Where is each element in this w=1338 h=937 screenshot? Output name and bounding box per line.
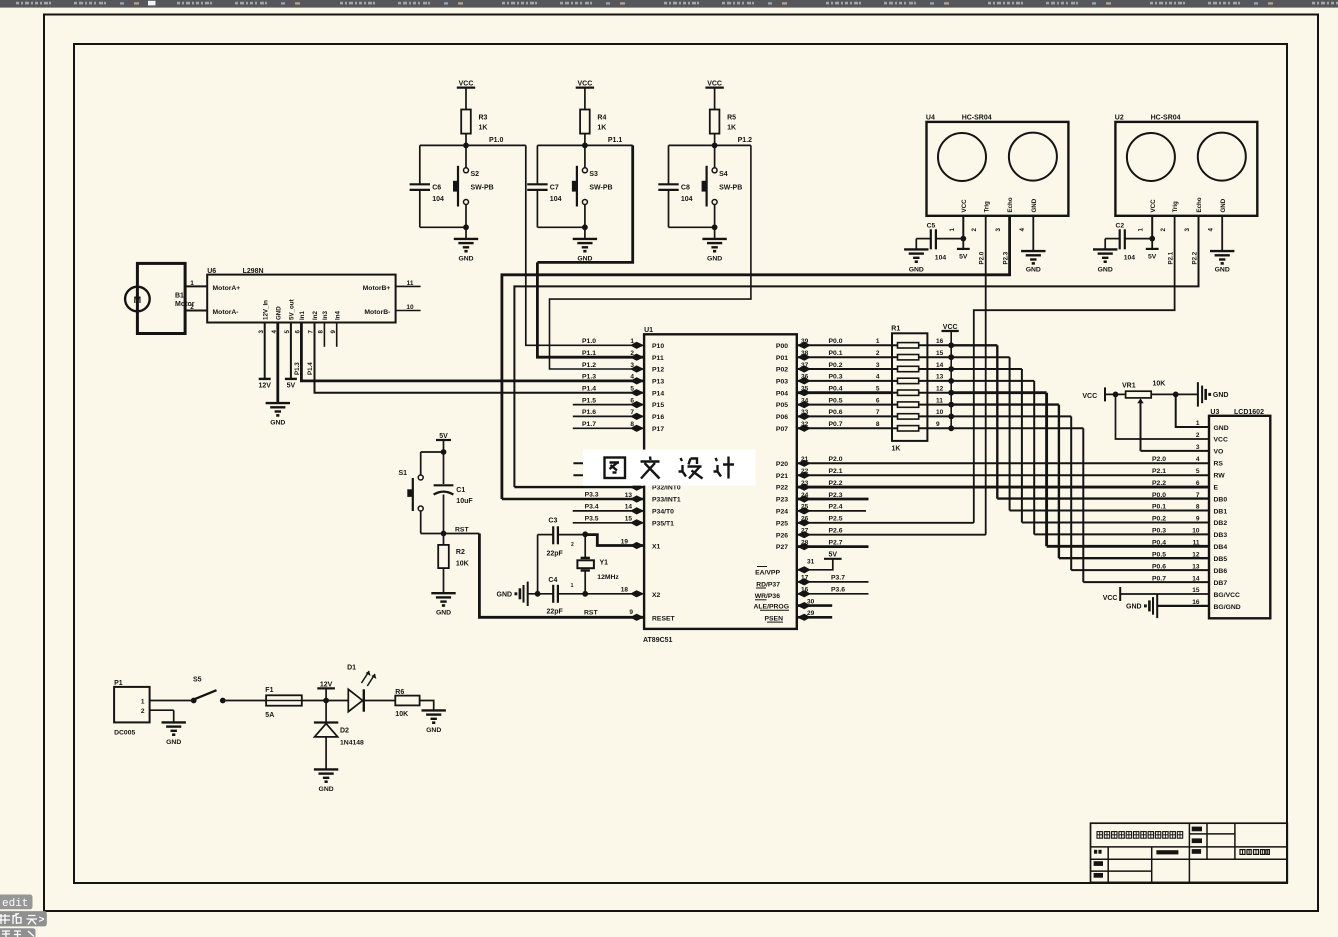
title block redaction marks [1094, 827, 1202, 878]
svg-text:1: 1 [630, 338, 634, 345]
R1 pin 3 / pin 14 wires [876, 362, 954, 372]
svg-text:7: 7 [1196, 492, 1200, 499]
svg-text:In3: In3 [322, 311, 329, 320]
capacitor C3 22pF [538, 518, 586, 558]
svg-text:P1.6: P1.6 [582, 409, 596, 416]
wire P0.0 staircase to LCD DB0 [951, 345, 1209, 498]
wire In4 stub [336, 323, 338, 347]
U4 pin numbers [949, 227, 1026, 231]
wire P1.2 to U1 pin 3 [550, 145, 751, 369]
svg-text:6: 6 [630, 397, 634, 404]
svg-text:GND: GND [1026, 266, 1041, 273]
U1 pin 21 (P20) wire [797, 456, 1209, 467]
svg-text:27: 27 [801, 528, 809, 535]
svg-text:4: 4 [1208, 228, 1215, 232]
svg-text:P0.0: P0.0 [1152, 492, 1166, 499]
svg-text:DB5: DB5 [1214, 556, 1228, 563]
svg-text:29: 29 [807, 610, 815, 617]
power port VCC (R1 rail) [942, 324, 959, 429]
svg-text:U3: U3 [1210, 409, 1219, 416]
svg-text:DB4: DB4 [1214, 544, 1228, 551]
svg-text:P03: P03 [776, 379, 788, 386]
U1 pin 28 (P27) wire [797, 539, 869, 550]
svg-text:2: 2 [190, 304, 194, 311]
svg-text:21: 21 [801, 456, 809, 463]
svg-text:9: 9 [629, 609, 633, 616]
svg-text:R3: R3 [479, 115, 488, 122]
svg-text:P14: P14 [652, 390, 664, 397]
svg-text:DB2: DB2 [1214, 520, 1228, 527]
svg-text:P1.0: P1.0 [582, 338, 596, 345]
wire VCC to R4 [584, 88, 586, 110]
U1 pin 30 ALE/PROG stub [797, 598, 832, 609]
svg-text:GND: GND [1215, 266, 1230, 273]
title block drawing name text [1097, 832, 1183, 839]
svg-text:D1: D1 [347, 665, 356, 672]
svg-text:DB7: DB7 [1214, 580, 1228, 587]
svg-text:VCC: VCC [1214, 437, 1228, 444]
svg-text:C8: C8 [681, 184, 690, 191]
ground (R6) [420, 701, 446, 734]
svg-text:7: 7 [630, 409, 634, 416]
capacitor C2 104 bypass [1105, 216, 1155, 261]
wire U4 Trig down to P2.6 row [985, 216, 987, 535]
U1 pin 1 (P10) wire [582, 338, 644, 349]
svg-text:2: 2 [630, 350, 634, 357]
svg-text:GND: GND [166, 739, 181, 746]
push-button switch S1 [398, 452, 423, 534]
svg-text:31: 31 [807, 559, 815, 566]
net label P2.1 (U2 Trig) [1167, 251, 1174, 264]
wire C7 to ground node [537, 224, 587, 230]
svg-text:R2: R2 [456, 549, 465, 556]
R1 pin 7 / pin 10 wires [876, 409, 954, 419]
wire R5 to node P1.2 [714, 134, 716, 146]
svg-text:RS: RS [1214, 461, 1224, 468]
svg-text:14: 14 [625, 504, 633, 511]
svg-text:MotorA+: MotorA+ [213, 285, 241, 292]
U1 pin 5 (P14) wire [582, 386, 644, 397]
U1 pin 35 (P04) wire to R1 [797, 386, 892, 397]
svg-text:LCD1602: LCD1602 [1234, 409, 1264, 416]
wire R4 to node P1.1 [584, 134, 586, 146]
svg-text:P0.2: P0.2 [1152, 516, 1166, 523]
wire In2 to U1 P1.4 [307, 323, 644, 393]
svg-text:U4: U4 [926, 115, 935, 122]
svg-text:P2.6: P2.6 [829, 528, 843, 535]
R1 pin 2 / pin 15 wires [876, 350, 954, 360]
svg-text:Echo: Echo [1007, 197, 1014, 212]
svg-text:P2.3: P2.3 [829, 492, 843, 499]
svg-text:P2.1: P2.1 [1167, 251, 1174, 264]
svg-text:P1.2: P1.2 [582, 362, 596, 369]
svg-text:P2.0: P2.0 [829, 456, 843, 463]
push-button switch S3 SW-PB [572, 145, 613, 227]
svg-text:SW-PB: SW-PB [589, 184, 612, 191]
svg-text:P06: P06 [776, 414, 788, 421]
U1 pin 13 (P3.3/INT1) wire from U4 echo [502, 492, 644, 503]
svg-text:RW: RW [1214, 473, 1226, 480]
power port VCC (P1.1 pull-up) [576, 81, 594, 88]
power port 5V (U6 pin5) [285, 323, 297, 390]
ground (C5) [904, 249, 928, 273]
push-button switch S4 SW-PB [702, 145, 743, 227]
U1 pin 24 (P23) wire [797, 492, 869, 503]
svg-text:104: 104 [681, 196, 693, 203]
node X1 junction [582, 531, 588, 557]
svg-text:P01: P01 [776, 355, 788, 362]
wire R3 to node P1.0 [465, 134, 467, 146]
svg-text:13: 13 [936, 374, 944, 381]
svg-text:Y1: Y1 [600, 559, 609, 566]
svg-text:VO: VO [1214, 449, 1224, 456]
svg-text:P3.7: P3.7 [831, 575, 845, 582]
net label P2.2 (U2 Echo) [1191, 251, 1198, 264]
R1 pin 6 / pin 11 wires [876, 397, 954, 407]
U1 pin 25 (P24) wire [797, 504, 866, 515]
svg-text:U6: U6 [207, 268, 216, 275]
svg-text:P07: P07 [776, 426, 788, 433]
svg-text:S4: S4 [719, 171, 728, 178]
U1 pin 33 (P06) wire to R1 [797, 409, 892, 420]
U1 pin 34 (P05) wire to R1 [797, 397, 892, 408]
net label P2.3 (U4 Echo) [1002, 251, 1009, 264]
svg-text:4: 4 [876, 374, 880, 381]
power port VCC (P1.0 pull-up) [457, 81, 475, 88]
svg-text:P1.5: P1.5 [582, 397, 596, 404]
U1 pin 22 (P21) wire [797, 468, 1209, 479]
svg-text:1: 1 [190, 280, 194, 287]
node P1.0 junction [420, 137, 526, 148]
power port VCC (P1.2 pull-up) [705, 81, 723, 88]
svg-text:P0.3: P0.3 [1152, 528, 1166, 535]
svg-text:P13: P13 [652, 379, 664, 386]
svg-text:GND: GND [426, 727, 441, 734]
wire P1.1 to U1 pin 2 [537, 145, 644, 357]
svg-text:2: 2 [876, 350, 880, 357]
resistor R4 1K [580, 110, 606, 134]
U1 pin 3 (P12) wire [582, 362, 644, 373]
U1 pin 2 (P11) wire [582, 350, 644, 361]
svg-text:P34/T0: P34/T0 [652, 509, 674, 516]
svg-text:1K: 1K [892, 446, 901, 453]
svg-text:RST: RST [455, 527, 469, 534]
U1 pin 39 (P00) wire to R1 [797, 338, 892, 349]
svg-text:P0.1: P0.1 [1152, 504, 1166, 511]
U1 pin 15 (P3.5) stub [573, 515, 644, 526]
ground (R2) [431, 568, 455, 617]
svg-text:C1: C1 [456, 487, 465, 494]
svg-text:MotorB-: MotorB- [364, 309, 390, 316]
svg-text:P35/T1: P35/T1 [652, 520, 674, 527]
svg-text:10: 10 [936, 409, 944, 416]
svg-text:19: 19 [621, 538, 629, 545]
capacitor C7 104 [527, 145, 561, 227]
resistor R6 10K [395, 689, 419, 718]
svg-text:C6: C6 [432, 184, 441, 191]
resistor R5 1K [710, 110, 736, 134]
svg-text:S3: S3 [589, 171, 598, 178]
svg-text:3: 3 [1196, 444, 1200, 451]
svg-text:C3: C3 [548, 518, 557, 525]
svg-text:22pF: 22pF [547, 609, 564, 616]
svg-text:DB0: DB0 [1214, 496, 1228, 503]
U1 pin 37 (P02) wire to R1 [797, 362, 892, 373]
svg-text:P0.2: P0.2 [829, 362, 843, 369]
svg-text:P1.4: P1.4 [582, 386, 596, 393]
svg-text:S5: S5 [193, 677, 202, 684]
U1 pin 16 (P3.6) stub [797, 587, 869, 598]
svg-text:P24: P24 [776, 509, 788, 516]
wire VR1 wiper to LCD VO [1141, 450, 1210, 452]
svg-text:104: 104 [432, 196, 444, 203]
svg-text:DB1: DB1 [1214, 508, 1228, 515]
svg-text:In1: In1 [299, 311, 306, 320]
svg-text:9: 9 [330, 330, 337, 334]
svg-text:DC005: DC005 [114, 730, 135, 737]
wire In1 to U1 P1.3 [294, 323, 644, 381]
U1 right pin names EA/VPP RD WR ALE PSEN [754, 567, 790, 623]
wire U4 Echo to U1 INT1 [502, 216, 1010, 499]
svg-text:3: 3 [995, 228, 1002, 232]
power port 5V (EA/VPP) [797, 552, 842, 570]
svg-text:33: 33 [801, 409, 809, 416]
power port 12V (U6 pin3) [258, 323, 271, 390]
svg-text:5: 5 [1196, 468, 1200, 475]
svg-text:HC-SR04: HC-SR04 [1151, 115, 1181, 122]
svg-text:AT89C51: AT89C51 [643, 637, 673, 644]
svg-text:P0.4: P0.4 [829, 386, 843, 393]
ground (LCD backlight, bar style) [1126, 594, 1209, 618]
ultrasonic module U4 HC-SR04 [926, 115, 1069, 216]
svg-text:P1.1: P1.1 [608, 137, 623, 144]
svg-text:4: 4 [1019, 227, 1026, 231]
svg-text:7: 7 [876, 409, 880, 416]
U1 pin 36 (P03) wire to R1 [797, 374, 892, 385]
svg-text:RST: RST [584, 609, 598, 616]
svg-text:P0.5: P0.5 [1152, 551, 1166, 558]
svg-text:R4: R4 [597, 115, 606, 122]
svg-text:D2: D2 [340, 728, 349, 735]
svg-text:Echo: Echo [1196, 197, 1203, 212]
ultrasonic module U2 HC-SR04 [1115, 115, 1258, 216]
svg-text:P2.7: P2.7 [829, 539, 843, 546]
svg-text:104: 104 [550, 196, 562, 203]
U1 pin 7 (P16) wire [573, 409, 644, 420]
svg-text:P2.0: P2.0 [1152, 456, 1166, 463]
wire P0.4 staircase to LCD DB4 [951, 393, 1209, 547]
svg-text:Trig: Trig [1172, 201, 1179, 213]
svg-text:MotorB+: MotorB+ [363, 285, 391, 292]
svg-text:P20: P20 [776, 461, 788, 468]
ground (crystal, bar style) [497, 582, 528, 606]
U1 left pin names P10-P17 [652, 343, 664, 433]
wire X1 node to U1 pin 19 [585, 535, 644, 550]
capacitor C4 22pF [528, 535, 586, 616]
svg-text:5V_out: 5V_out [289, 299, 296, 320]
svg-text:1K: 1K [727, 125, 736, 132]
resistor R2 10K [438, 534, 469, 569]
svg-text:C7: C7 [550, 184, 559, 191]
node P1.2 junction [669, 137, 753, 148]
svg-text:35: 35 [801, 386, 809, 393]
U1 pin 38 (P01) wire to R1 [797, 350, 892, 361]
svg-text:1: 1 [949, 228, 956, 232]
capacitor C6 104 [410, 145, 444, 227]
svg-text:P3.3: P3.3 [585, 492, 599, 499]
wire VCC to R3 [465, 88, 467, 110]
svg-text:104: 104 [935, 254, 947, 261]
svg-text:DB3: DB3 [1214, 532, 1228, 539]
svg-text:HC-SR04: HC-SR04 [962, 115, 992, 122]
svg-text:3: 3 [1184, 228, 1191, 232]
svg-text:PSEN: PSEN [764, 615, 783, 622]
svg-text:X2: X2 [652, 592, 661, 599]
svg-text:5V: 5V [287, 383, 296, 390]
svg-text:P0.6: P0.6 [1152, 563, 1166, 570]
svg-text:9: 9 [936, 421, 940, 428]
svg-text:P00: P00 [776, 343, 788, 350]
svg-text:P2.4: P2.4 [829, 504, 843, 511]
title block sheet-count text [1240, 850, 1269, 855]
connector P1 DC005 [114, 680, 191, 736]
node RST junction [421, 527, 480, 537]
svg-text:5V: 5V [959, 254, 968, 261]
svg-text:F1: F1 [265, 687, 273, 694]
wire VCC to R5 [714, 88, 716, 110]
svg-text:P22: P22 [776, 485, 788, 492]
diode D2 1N4148 [314, 701, 364, 770]
svg-text:P2.1: P2.1 [1152, 468, 1166, 475]
svg-text:1: 1 [1138, 228, 1145, 232]
svg-text:GND: GND [909, 266, 924, 273]
ground (below S3) [573, 227, 597, 262]
svg-text:R5: R5 [727, 115, 736, 122]
ground (U2 pin 4) [1210, 216, 1234, 273]
crystal Y1 12MHz [571, 542, 620, 589]
svg-text:10K: 10K [456, 561, 469, 568]
svg-text:P0.6: P0.6 [829, 409, 843, 416]
node X2 junction, wire to U1 pin 18 [582, 571, 644, 598]
U1 right pin names P00-P07, P20-P27 [776, 343, 788, 551]
svg-text:P21: P21 [776, 473, 788, 480]
svg-text:8: 8 [876, 421, 880, 428]
wire U2 Trig to P2.5 row [974, 216, 1175, 523]
svg-text:39: 39 [801, 338, 809, 345]
svg-text:VCC: VCC [1082, 393, 1097, 400]
svg-text:GND: GND [1214, 425, 1229, 432]
svg-text:L298N: L298N [243, 268, 264, 275]
svg-text:GND: GND [707, 255, 722, 262]
svg-text:1N4148: 1N4148 [340, 740, 364, 747]
wire P0.2 staircase to LCD DB2 [951, 369, 1209, 522]
watermark text box [583, 450, 756, 486]
ground (below S4) [702, 227, 726, 262]
svg-text:8: 8 [318, 330, 325, 334]
U1 pin 10 (P3.0) stub [573, 460, 644, 467]
power port VCC (VR1) [1082, 387, 1125, 401]
LED D1 [326, 665, 395, 712]
svg-text:P04: P04 [776, 390, 788, 397]
wire C8 to ground node [669, 224, 718, 230]
R1 pin 8 / pin 9 wires [876, 421, 954, 431]
svg-text:edit: edit [2, 898, 28, 910]
svg-text:P15: P15 [652, 402, 664, 409]
svg-text:VCC: VCC [1103, 595, 1118, 602]
svg-text:SW-PB: SW-PB [719, 184, 742, 191]
svg-text:P10: P10 [652, 343, 664, 350]
svg-text:25: 25 [801, 504, 809, 511]
svg-text:E: E [1214, 484, 1219, 491]
svg-text:30: 30 [807, 598, 815, 605]
svg-text:P1.4: P1.4 [307, 362, 314, 375]
wire RST to U1 RESET pin 9 [479, 534, 644, 621]
U1 pin 4 (P13) wire [582, 374, 644, 385]
svg-text:VR1: VR1 [1122, 382, 1136, 389]
svg-text:6: 6 [876, 397, 880, 404]
ground (below S2) [454, 227, 478, 262]
svg-text:11: 11 [1193, 540, 1200, 547]
svg-text:36: 36 [801, 374, 809, 381]
svg-text:ALE/PROG: ALE/PROG [754, 604, 790, 611]
U1 pin 29 PSEN stub [797, 610, 832, 621]
svg-text:34: 34 [801, 397, 809, 404]
svg-text:14: 14 [1192, 575, 1200, 582]
node reset-top junction [421, 449, 447, 455]
wire U6 pin10 stub [396, 310, 421, 312]
LCD pin numbers 1-16 [1192, 420, 1200, 606]
wire GND to LCD pin 1 [1176, 394, 1209, 427]
U1 pin 8 (P17) wire [573, 421, 644, 432]
svg-text:P2.5: P2.5 [829, 516, 843, 523]
svg-text:P1: P1 [114, 680, 123, 687]
svg-text:32: 32 [801, 421, 809, 428]
svg-text:10: 10 [1192, 528, 1200, 535]
svg-text:P2.2: P2.2 [1152, 480, 1166, 487]
wire P0.6 staircase to LCD DB6 [951, 416, 1209, 570]
U1 pin 11 (P3.1) stub [573, 472, 644, 479]
svg-text:GND: GND [497, 591, 513, 598]
svg-text:GND: GND [1031, 198, 1038, 212]
svg-text:8: 8 [630, 421, 634, 428]
wire motor loop to U6 pins 1,2 [137, 263, 207, 333]
svg-text:P17: P17 [652, 426, 664, 433]
svg-text:C4: C4 [548, 577, 557, 584]
resistor R3 1K [461, 110, 487, 134]
svg-text:1: 1 [141, 698, 145, 705]
U2 pin numbers [1138, 228, 1215, 232]
svg-text:S1: S1 [398, 470, 407, 477]
svg-text:P3.5: P3.5 [585, 515, 599, 522]
U1 pin 31 EA/VPP arrow [797, 559, 815, 574]
U1 left pin names P30-P35 [652, 461, 681, 623]
wire P0.5 staircase to LCD DB5 [951, 405, 1209, 559]
svg-text:24: 24 [801, 492, 809, 499]
svg-text:10K: 10K [1153, 380, 1166, 387]
R1 pin 1 / pin 16 wires [876, 338, 954, 348]
svg-text:13: 13 [625, 492, 633, 499]
svg-text:1: 1 [876, 338, 880, 345]
svg-text:>: > [39, 916, 45, 927]
svg-text:P05: P05 [776, 402, 788, 409]
svg-text:U2: U2 [1115, 115, 1124, 122]
svg-text:4: 4 [630, 374, 634, 381]
svg-text:5: 5 [630, 386, 634, 393]
title block [1091, 823, 1288, 882]
svg-text:BG/VCC: BG/VCC [1214, 592, 1241, 599]
svg-text:15: 15 [936, 350, 944, 357]
capacitor C5 104 bypass [916, 216, 966, 261]
